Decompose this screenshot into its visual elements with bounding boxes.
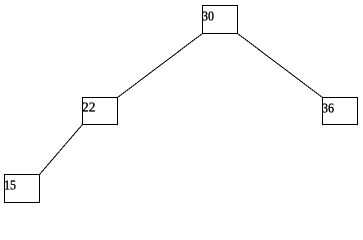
node 30 box — [203, 6, 238, 34]
node 15 box — [5, 175, 40, 203]
wire: root 30 to left child 22 — [118, 34, 203, 98]
node 22 box — [83, 98, 118, 125]
svg-text:22: 22 — [82, 100, 95, 115]
svg-text:36: 36 — [322, 101, 334, 116]
node 36 box — [323, 98, 358, 125]
wire: node 22 to left child 15 — [40, 125, 83, 175]
wire: root 30 to right child 36 — [238, 34, 323, 98]
svg-text:30: 30 — [202, 9, 214, 24]
svg-text:15: 15 — [4, 178, 16, 193]
